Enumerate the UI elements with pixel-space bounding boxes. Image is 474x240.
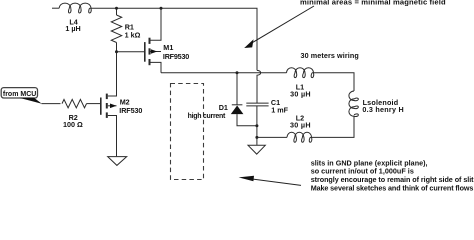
svg-text:30 meters wiring: 30 meters wiring <box>301 51 359 60</box>
svg-text:IRF530: IRF530 <box>119 106 142 115</box>
svg-text:high current: high current <box>188 113 226 120</box>
svg-text:30 µH: 30 µH <box>290 89 311 98</box>
svg-text:IRF9530: IRF9530 <box>163 52 189 61</box>
svg-text:1 µH: 1 µH <box>65 24 80 33</box>
svg-text:Make several sketches and thin: Make several sketches and think of curre… <box>311 184 474 192</box>
svg-text:D1: D1 <box>219 103 228 112</box>
svg-text:minimal areas = minimal magnet: minimal areas = minimal magnetic field <box>300 0 446 6</box>
svg-text:30 µH: 30 µH <box>290 120 311 129</box>
svg-text:1 mF: 1 mF <box>271 106 288 115</box>
svg-text:M1: M1 <box>163 43 173 52</box>
svg-text:1 kΩ: 1 kΩ <box>125 31 141 40</box>
svg-text:100 Ω: 100 Ω <box>63 120 83 129</box>
svg-text:from MCU: from MCU <box>3 91 36 98</box>
svg-text:0.3 henry H: 0.3 henry H <box>362 105 404 114</box>
